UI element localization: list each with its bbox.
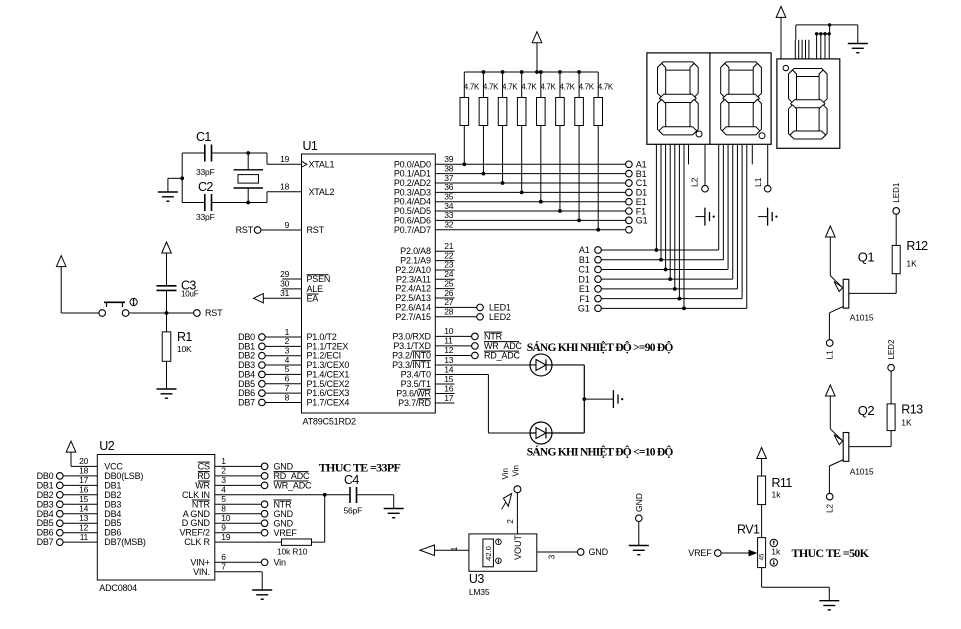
svg-text:8: 8 [285, 392, 290, 402]
svg-text:SÁNG KHI NHIỆT ĐỘ >=90 ĐỘ: SÁNG KHI NHIỆT ĐỘ >=90 ĐỘ [527, 340, 674, 354]
svg-text:XTAL1: XTAL1 [309, 159, 335, 169]
svg-text:VIN+: VIN+ [190, 557, 209, 567]
svg-text:Q2: Q2 [858, 403, 875, 418]
svg-text:VOUT: VOUT [513, 534, 523, 560]
svg-text:SÁNG KHI NHIỆT ĐỘ <=10 ĐỘ: SÁNG KHI NHIỆT ĐỘ <=10 ĐỘ [527, 445, 674, 459]
svg-text:C1: C1 [196, 130, 211, 144]
svg-text:G1: G1 [636, 216, 648, 226]
svg-text:GND: GND [589, 547, 609, 557]
svg-text:DB7: DB7 [37, 537, 54, 547]
svg-text:4.7K: 4.7K [598, 83, 614, 92]
svg-text:32: 32 [444, 220, 453, 230]
svg-text:P3.4/T0: P3.4/T0 [401, 369, 431, 379]
svg-text:P3.2/INT0: P3.2/INT0 [392, 350, 431, 360]
svg-text:A1015: A1015 [850, 313, 874, 323]
svg-text:B1: B1 [579, 255, 590, 265]
svg-text:C1: C1 [578, 265, 589, 275]
svg-text:R1: R1 [177, 330, 192, 344]
svg-text:1: 1 [450, 546, 459, 551]
svg-text:P3.7/RD: P3.7/RD [398, 398, 431, 408]
svg-text:RST: RST [236, 225, 254, 235]
svg-text:Q1: Q1 [858, 250, 875, 265]
svg-text:31: 31 [280, 288, 289, 298]
svg-text:THUC TE =33PF: THUC TE =33PF [319, 461, 401, 475]
svg-text:4.7K: 4.7K [464, 83, 480, 92]
svg-text:RD_ADC: RD_ADC [484, 351, 521, 361]
svg-text:11: 11 [80, 532, 89, 542]
svg-text:P2.7/A15: P2.7/A15 [395, 312, 431, 322]
svg-text:G1: G1 [578, 304, 590, 314]
svg-text:1k: 1k [772, 490, 782, 500]
svg-text:P1.7/CEX4: P1.7/CEX4 [307, 397, 350, 407]
svg-text:Vin: Vin [274, 558, 286, 568]
svg-text:A1015: A1015 [850, 466, 874, 476]
svg-text:GND: GND [634, 493, 644, 512]
svg-text:19: 19 [221, 532, 230, 542]
svg-text:28: 28 [444, 307, 453, 317]
svg-text:EA: EA [307, 293, 319, 303]
svg-text:VIN.: VIN. [193, 567, 210, 577]
svg-text:45: 45 [760, 553, 766, 560]
svg-text:33pF: 33pF [196, 167, 215, 177]
svg-text:4.7K: 4.7K [579, 83, 595, 92]
svg-text:P3.3/INT1: P3.3/INT1 [392, 360, 431, 370]
svg-text:RV1: RV1 [737, 523, 760, 537]
svg-text:LED1: LED1 [892, 182, 901, 203]
svg-text:56pF: 56pF [344, 506, 363, 516]
svg-text:P0.7/AD7: P0.7/AD7 [394, 225, 431, 235]
svg-text:RST: RST [205, 308, 223, 318]
svg-text:D1: D1 [578, 274, 589, 284]
svg-text:4.7K: 4.7K [559, 83, 575, 92]
svg-text:12: 12 [444, 345, 453, 355]
svg-text:Vin: Vin [512, 465, 521, 476]
svg-text:29: 29 [280, 269, 289, 279]
svg-text:1K: 1K [906, 258, 917, 268]
svg-text:VREF: VREF [274, 528, 298, 538]
svg-text:R11: R11 [772, 476, 793, 490]
svg-text:DB7: DB7 [238, 397, 255, 407]
svg-text:17: 17 [444, 393, 453, 403]
svg-text:13: 13 [444, 355, 453, 365]
svg-text:P3.0/RXD: P3.0/RXD [392, 331, 431, 341]
svg-text:4.7K: 4.7K [502, 83, 518, 92]
svg-text:L2: L2 [826, 503, 835, 512]
svg-text:2: 2 [506, 519, 515, 524]
svg-text:AT89C51RD2: AT89C51RD2 [303, 417, 357, 427]
svg-text:U2: U2 [99, 439, 114, 453]
svg-text:4.7K: 4.7K [483, 83, 499, 92]
svg-text:10: 10 [444, 326, 453, 336]
svg-text:RST: RST [307, 225, 325, 235]
svg-text:ADC0804: ADC0804 [99, 583, 137, 593]
svg-text:WR_ADC: WR_ADC [484, 341, 523, 351]
svg-text:3: 3 [548, 554, 557, 559]
svg-text:C4: C4 [344, 473, 359, 487]
svg-text:18: 18 [280, 182, 289, 192]
svg-text:9: 9 [285, 220, 290, 230]
svg-text:LED2: LED2 [489, 312, 511, 322]
svg-text:7: 7 [221, 562, 226, 572]
svg-text:WR_ADC: WR_ADC [274, 481, 313, 491]
svg-text:P3.5/T1: P3.5/T1 [401, 379, 431, 389]
svg-text:PSEN: PSEN [307, 274, 331, 284]
svg-text:42.0: 42.0 [484, 546, 493, 561]
svg-text:P3.1/TXD: P3.1/TXD [393, 341, 431, 351]
svg-text:16: 16 [444, 383, 453, 393]
svg-text:1k: 1k [771, 547, 781, 557]
svg-text:R12: R12 [906, 239, 928, 253]
svg-text:19: 19 [280, 154, 289, 164]
svg-text:U1: U1 [303, 139, 318, 153]
svg-text:L1: L1 [826, 350, 835, 359]
svg-text:CLK R: CLK R [184, 537, 210, 547]
svg-text:C2: C2 [198, 180, 213, 194]
svg-text:Vin: Vin [501, 468, 510, 479]
svg-text:1K: 1K [901, 418, 912, 428]
svg-text:33pF: 33pF [196, 212, 215, 222]
svg-text:15: 15 [444, 374, 453, 384]
svg-text:LM35: LM35 [469, 587, 490, 597]
svg-text:6: 6 [221, 552, 226, 562]
svg-text:F1: F1 [579, 294, 589, 304]
svg-text:E1: E1 [579, 284, 590, 294]
svg-text:L1: L1 [753, 177, 763, 187]
svg-text:U3: U3 [469, 572, 484, 586]
svg-text:VREF: VREF [688, 548, 712, 558]
svg-text:10k R10: 10k R10 [277, 547, 308, 557]
svg-text:P3.6/WR: P3.6/WR [396, 389, 431, 399]
svg-text:LED2: LED2 [887, 339, 896, 360]
svg-text:10uF: 10uF [181, 290, 199, 299]
svg-text:11: 11 [444, 336, 453, 346]
svg-text:THUC TE =50K: THUC TE =50K [792, 546, 870, 560]
svg-text:L2: L2 [690, 177, 700, 187]
svg-text:4.7K: 4.7K [521, 83, 537, 92]
svg-text:10K: 10K [177, 344, 192, 354]
svg-text:14: 14 [444, 364, 453, 374]
svg-text:4.7K: 4.7K [540, 83, 556, 92]
svg-text:DB7(MSB): DB7(MSB) [104, 537, 146, 547]
svg-text:XTAL2: XTAL2 [309, 187, 335, 197]
svg-text:NTR: NTR [484, 332, 503, 342]
svg-text:R13: R13 [901, 403, 923, 417]
svg-text:A1: A1 [579, 245, 590, 255]
